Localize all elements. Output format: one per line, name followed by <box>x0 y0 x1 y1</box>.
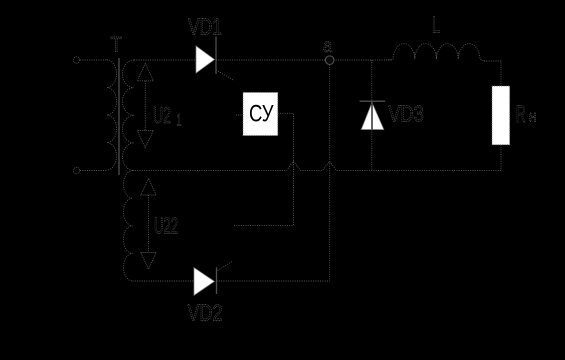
svg-text:T: T <box>111 34 123 57</box>
wire VD1 cathode to inductor <box>216 59 393 61</box>
terminal circle top-left <box>73 57 79 63</box>
transformer T primary winding <box>107 60 117 170</box>
wire inductor to Rn <box>484 61 501 86</box>
svg-text:a: a <box>323 36 332 57</box>
gate wire VD2 <box>218 261 234 271</box>
arrow U21 <box>137 64 153 148</box>
wire node a to VD2 cathode rail <box>329 65 331 282</box>
stub wire left of CU <box>236 114 243 116</box>
thyristor VD2 <box>194 268 217 296</box>
svg-text:U22: U22 <box>154 213 178 239</box>
svg-text:R: R <box>516 101 526 128</box>
svg-text:1: 1 <box>177 111 182 130</box>
svg-text:СУ: СУ <box>249 101 274 128</box>
wire primary top <box>80 59 107 61</box>
transformer secondary winding upper <box>122 60 134 171</box>
diode VD3 <box>360 60 386 171</box>
inductor L <box>388 44 484 61</box>
arrow U22 <box>141 179 156 270</box>
wire lower secondary to VD2 <box>133 280 195 282</box>
svg-text:VD3: VD3 <box>388 100 423 126</box>
resistor Rn <box>492 86 510 145</box>
node a junction dot <box>325 56 334 65</box>
wire VD2 cathode <box>217 280 330 282</box>
wire top rail secondary to VD1 <box>134 59 196 61</box>
svg-text:VD2: VD2 <box>188 299 223 325</box>
wire CU output <box>233 113 293 225</box>
wire primary bottom <box>80 170 107 172</box>
svg-text:VD1: VD1 <box>188 14 222 40</box>
transformer secondary winding lower <box>124 171 133 281</box>
bottom rail with hops <box>133 161 502 170</box>
thyristor VD1 <box>196 37 216 75</box>
svg-text:н: н <box>529 109 537 126</box>
svg-text:L: L <box>432 11 440 37</box>
gate wire VD1 <box>216 70 234 81</box>
svg-text:U2: U2 <box>153 102 171 128</box>
wire Rn bottom <box>500 145 502 171</box>
control unit CY box <box>243 92 278 135</box>
terminal circle bottom-left <box>73 167 79 173</box>
transformer core <box>118 58 120 175</box>
